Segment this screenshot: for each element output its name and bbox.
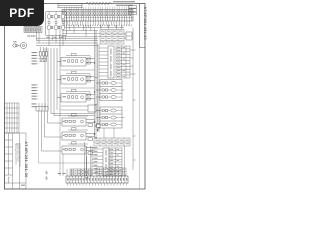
ground labels <box>58 173 89 178</box>
aux box right of T1 <box>124 32 133 40</box>
ground symbols <box>45 171 48 181</box>
relay channel block K2 <box>57 71 95 84</box>
XP1 rotated label <box>110 49 111 77</box>
lamp HL10 bottom <box>85 156 87 176</box>
T3 cell microtext <box>110 149 119 175</box>
staircase routing wires <box>39 110 95 163</box>
svg-text:АТ.6Р/281.361.30: АТ.6Р/281.361.30 <box>24 142 28 178</box>
dashed jumper lines top <box>86 3 112 5</box>
connector X2 cell hatching <box>25 27 41 31</box>
T3 right side wire <box>124 146 126 176</box>
page border frame <box>5 4 146 190</box>
wires into T2 <box>99 48 133 76</box>
left destination labels group C <box>32 104 37 108</box>
gather bus wires below strip <box>62 25 124 37</box>
svg-text:управления. Схема: управления. Схема <box>17 143 19 163</box>
label tie stubs group B <box>37 85 39 99</box>
XP2 rotated label <box>106 150 107 176</box>
bottom connector XS2 pin strip <box>66 176 128 183</box>
relay channel block K1 <box>57 53 95 66</box>
connector label box XP2 (vertical) <box>103 148 109 176</box>
small table above strip left <box>70 169 92 175</box>
stubs from relay group to header table <box>104 128 114 138</box>
tick marks below bottom strip <box>68 183 127 186</box>
top connector XS1 pin strip <box>62 10 133 22</box>
right content edge wire <box>132 28 134 171</box>
aux box K4 <box>61 105 96 112</box>
svg-text:Пульт дистанционного: Пульт дистанционного <box>14 143 16 165</box>
svg-text:АТ.6Р/281.361.30: АТ.6Р/281.361.30 <box>143 7 147 40</box>
wide header table bottom-right <box>94 138 130 146</box>
left destination labels group A <box>32 52 37 64</box>
left destination labels group B <box>32 85 37 100</box>
pin labels below strip <box>64 25 132 27</box>
stamp title text (rotated) <box>7 143 21 184</box>
stamp bottom cell text <box>21 185 25 186</box>
indicator lamp panel box <box>46 12 67 36</box>
title block main stamp <box>5 133 27 189</box>
wires strip to T1 <box>62 25 122 37</box>
inter-channel wire 2 <box>61 87 95 89</box>
svg-text:электр. принципиальная: электр. принципиальная <box>18 143 20 167</box>
lamps HL1-HL6 in panel (vertical ovals) <box>47 14 64 30</box>
relay group boxes KV4-KV6 <box>96 107 125 128</box>
inner margin line right <box>139 4 141 190</box>
lower relay block KL1 <box>62 114 95 127</box>
pin cell microtext <box>63 11 133 16</box>
svg-text:Формат: Формат <box>7 177 10 184</box>
bottom strip cell microtext <box>67 178 127 181</box>
PDF badge <box>0 0 44 26</box>
vertical bus lines left-middle <box>45 25 60 110</box>
small aux boxes below top-right corner <box>129 6 137 15</box>
contact table T1 <box>100 30 124 45</box>
T2 cell microtext <box>117 47 125 77</box>
ladder wires into T3 <box>91 146 104 176</box>
stamp text block top-right <box>113 1 135 6</box>
terminal tabs right edge <box>133 50 136 160</box>
svg-text:ХЗ ХЗО: ХЗ ХЗО <box>27 35 36 38</box>
small table above strip right <box>96 168 126 175</box>
label tie stubs group A <box>37 53 39 64</box>
small connector X2 row <box>24 27 42 33</box>
title block revision grid <box>5 103 20 133</box>
lower relay block KL2 <box>62 128 95 141</box>
right vertical bus bundle <box>85 28 100 177</box>
drawing number box top-right <box>140 4 146 48</box>
lamp panel bottom labels <box>47 37 64 38</box>
relay channel block K3 <box>57 89 95 102</box>
note box top-left of strip <box>58 3 82 8</box>
terminal table T3 <box>109 148 122 176</box>
inter-channel wire 1 <box>61 69 95 71</box>
bell HA1 <box>13 42 27 48</box>
relay group boxes KV1-KV3 (circle+oval rows) <box>96 80 125 101</box>
small connector X4 <box>36 103 48 111</box>
svg-text:НА1: НА1 <box>13 41 18 44</box>
above-strip tables microtext <box>71 169 125 174</box>
T3 ladder labels <box>94 147 98 172</box>
junction dots on bus bundle <box>94 62 100 138</box>
lamp column wires <box>49 12 63 37</box>
contact table T2 <box>116 46 130 78</box>
bottom drop wires <box>60 109 126 177</box>
connector label box XP1 (vertical) <box>108 46 114 78</box>
inter-row contact marks <box>48 21 64 23</box>
resistor group R1-R3 <box>39 47 47 62</box>
header table microtext <box>96 140 130 145</box>
lower relay block KL3 <box>62 142 95 155</box>
T1 cell microtext <box>101 31 123 43</box>
wire stubs below pin strip <box>65 21 130 26</box>
pin number ticks above strip <box>64 7 131 9</box>
horizontal bus wires under lamp panel <box>36 33 98 46</box>
diodes VD1-VD3 <box>39 59 45 62</box>
